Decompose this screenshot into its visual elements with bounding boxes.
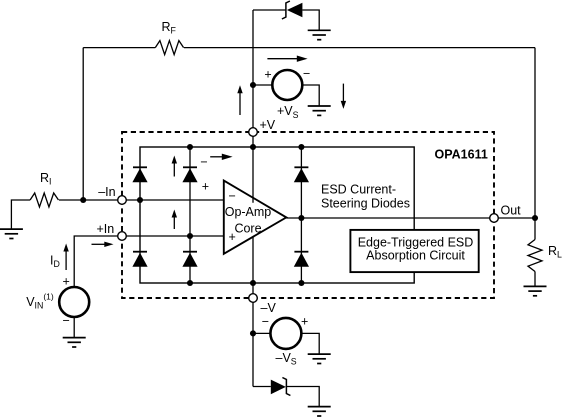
junction dot column2 top rail <box>187 144 193 150</box>
svg-text:+: + <box>229 230 236 244</box>
junction dot column3 output row <box>298 215 304 221</box>
arrow right at +In <box>92 242 114 247</box>
diode D1 top of column 1 <box>132 167 147 182</box>
junction dot column2 bottom rail <box>187 280 193 286</box>
wire +VS branch <box>253 84 272 86</box>
junction dot column1 -In row <box>137 197 143 203</box>
svg-text:+: + <box>62 275 69 289</box>
svg-text:Out: Out <box>501 204 522 218</box>
arrow up column area middle <box>172 210 177 230</box>
wire top zener branch <box>253 9 286 11</box>
junction dot -VS tap <box>250 330 256 336</box>
wire right vertical from top rail to Out column <box>534 48 536 218</box>
svg-text:+: + <box>264 68 271 82</box>
junction dot column2 +In row <box>187 233 193 239</box>
arrow current right above +VS <box>267 56 307 62</box>
wire VIN bottom to ground <box>73 317 75 338</box>
arrow current into +V rail (up) <box>237 85 242 115</box>
arrow right across top diode <box>210 154 232 160</box>
junction dot center bottom rail <box>250 280 256 286</box>
zener diode D5 (top, to +V line) <box>287 3 303 18</box>
diode D3b bottom of column 3 <box>294 252 309 267</box>
wire center vertical +V / -V supply line <box>252 10 254 203</box>
pin -In <box>118 196 127 205</box>
wire feedback top rail y=47 from RF-left vertical to right vertical <box>83 47 155 49</box>
pin Out <box>490 214 499 223</box>
junction dot RF/RI at -In <box>80 197 86 203</box>
diode D2b bottom of column 2 <box>182 252 197 267</box>
wire RL bottom to ground <box>534 272 536 287</box>
source -VS circle <box>270 318 301 349</box>
ground (top zener) <box>308 30 331 39</box>
svg-text:−: − <box>229 189 236 203</box>
junction dot output column <box>532 215 538 221</box>
junction dot column3 bottom rail <box>298 280 304 286</box>
junction dot column3 top rail <box>298 144 304 150</box>
wire RI left segment to ground <box>11 200 30 229</box>
ground (+VS source) <box>308 106 331 115</box>
wire RI right segment to -In pin <box>59 199 122 201</box>
ground (-VS source) <box>308 354 331 363</box>
wire left vertical from RF to -In node <box>82 48 84 200</box>
svg-text:Core: Core <box>234 221 261 235</box>
OPA1611 package dashed boundary <box>122 132 494 298</box>
svg-text:−: − <box>262 315 269 329</box>
svg-text:−: − <box>62 314 69 328</box>
wire diode column 3 <box>300 147 302 283</box>
zener diode D6 (bottom, to -V line) <box>271 380 286 395</box>
svg-text:+In: +In <box>97 222 115 236</box>
diode D1b bottom of column 1 <box>132 252 147 267</box>
wire +In pin to VIN source <box>74 236 122 287</box>
junction dot +VS tap <box>250 82 256 88</box>
wire diode column 2 <box>189 147 191 283</box>
source VIN circle <box>59 287 89 317</box>
svg-text:Op-Amp: Op-Amp <box>225 205 272 219</box>
svg-text:–In: –In <box>98 185 115 199</box>
arrow ID up <box>63 244 68 271</box>
svg-text:OPA1611: OPA1611 <box>435 148 488 162</box>
resistor RI <box>30 193 58 207</box>
wire op-amp output to Out pin and load <box>286 217 535 219</box>
svg-text:−: − <box>200 155 207 169</box>
ground (bottom zener) <box>308 407 331 416</box>
svg-text:+V: +V <box>260 118 276 132</box>
svg-text:–V: –V <box>261 301 277 315</box>
pin +In <box>118 232 127 241</box>
ESD current-steering diodes inner box <box>140 147 414 283</box>
ground (RL load) <box>524 286 547 295</box>
box edge-triggered ESD absorption circuit <box>350 230 478 272</box>
arrow up column area top <box>172 156 177 177</box>
junction dot center top rail <box>250 144 256 150</box>
svg-text:−: − <box>303 67 310 81</box>
ground (VIN source) <box>63 338 86 347</box>
op-amp U1 triangle <box>224 181 286 254</box>
source +VS circle <box>272 70 302 100</box>
resistor RF <box>155 41 183 55</box>
wire -In row to op-amp inverting input <box>122 199 224 201</box>
resistor RL <box>528 240 542 272</box>
wire bottom zener branch <box>253 386 271 388</box>
ground (RI input) <box>0 229 23 238</box>
wire -VS branch <box>253 332 270 334</box>
arrow current down right of +VS ground <box>341 84 346 109</box>
pin +V <box>249 128 258 137</box>
pin -V <box>249 294 258 303</box>
wire +In row to op-amp noninverting input <box>122 235 224 237</box>
svg-text:ESD Current-: ESD Current- <box>321 183 396 197</box>
svg-text:Steering Diodes: Steering Diodes <box>321 197 410 211</box>
svg-text:+: + <box>202 180 209 194</box>
svg-text:+: + <box>301 315 308 329</box>
diode D3 top of column 3 <box>294 167 309 182</box>
svg-text:Absorption Circuit: Absorption Circuit <box>366 248 465 262</box>
wire Out node down to RL <box>534 218 536 240</box>
diode D2 top of column 2 <box>182 167 197 182</box>
